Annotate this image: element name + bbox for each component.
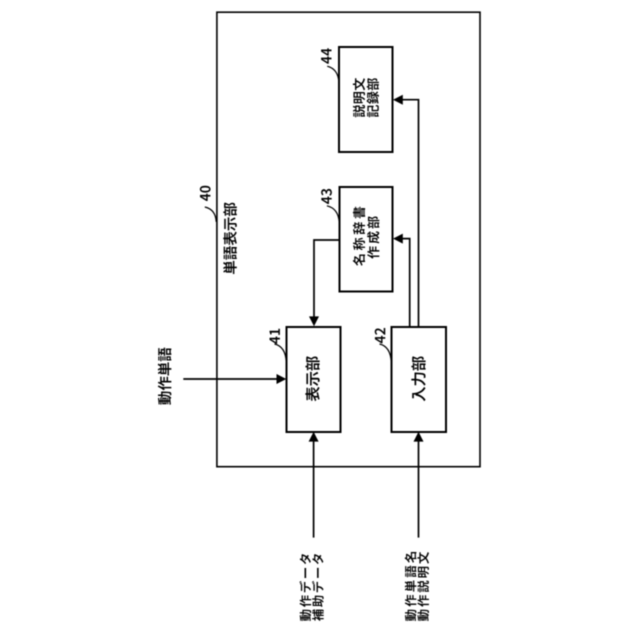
- wire box 42 to box 44 (right then up): [403, 100, 419, 327]
- box 43 名称辞書作成部 (name dictionary creation unit): [340, 187, 393, 292]
- box 44 説明文記録部 (explanation recording unit): [339, 47, 393, 152]
- text 記録部 (line 2 of box 44): [367, 78, 379, 117]
- wire 動作単語 to box 41 (vertical): [183, 378, 277, 380]
- label 44: [321, 48, 331, 64]
- input text 補助データ (line 2): [312, 554, 324, 621]
- label 43: [321, 189, 332, 204]
- arrowhead into box 41 top: [277, 374, 287, 384]
- label 40: [200, 186, 211, 201]
- wire box 42 to box 43 (right then up): [403, 239, 410, 327]
- leader line for 41: [275, 344, 287, 362]
- box 41 表示部 (display unit): [287, 327, 341, 432]
- wire box 43 to box 41 (up then left): [314, 240, 339, 317]
- input text 動作単語名 (line 1): [405, 552, 417, 621]
- box 42 入力部 (input unit): [392, 327, 447, 432]
- label 41: [270, 329, 280, 344]
- arrowhead into box 42 left: [414, 432, 424, 442]
- leader line for 42: [380, 344, 392, 362]
- input text 動作説明文 (line 2): [417, 552, 429, 621]
- input text 動作単語 (action word): [158, 348, 172, 405]
- leader line for 40: [205, 207, 216, 222]
- wire 動作データ/補助データ into box 41 (horizontal): [313, 441, 315, 538]
- arrowhead into box 41 right: [309, 316, 319, 326]
- wire 動作単語名/動作説明文 into box 42 (horizontal): [418, 441, 420, 538]
- leader line for 44: [327, 66, 339, 82]
- text 説明文 (line 1 of box 44): [353, 78, 365, 117]
- leader line for 43: [327, 206, 339, 223]
- label 42: [375, 328, 386, 343]
- text 名称辞書 (line 1 of box 43): [353, 207, 365, 266]
- title text 単語表示部: [223, 203, 237, 274]
- outer box 40 単語表示部 (word display unit): [217, 12, 480, 467]
- arrowhead into box 41 left: [309, 432, 319, 442]
- text 入力部: [411, 356, 425, 401]
- arrowhead into box 44 bottom: [393, 95, 403, 105]
- text 作成部 (line 2 of box 43): [367, 216, 379, 258]
- input text 動作データ (line 1): [299, 554, 311, 621]
- text 表示部: [305, 356, 319, 401]
- arrowhead into box 43 bottom: [393, 234, 403, 244]
